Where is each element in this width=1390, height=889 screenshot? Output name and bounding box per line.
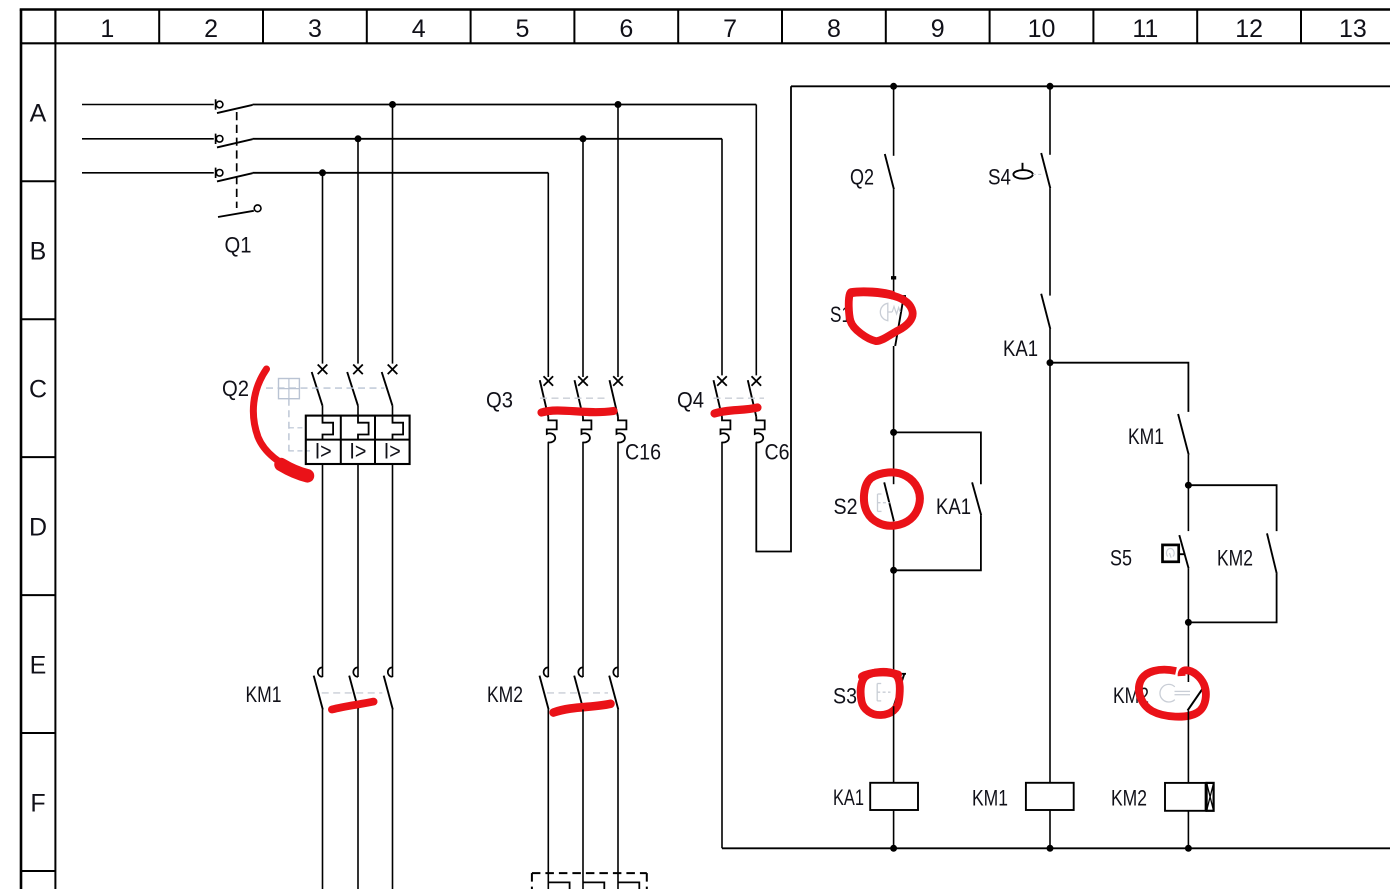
pushbutton S3 <box>877 674 906 706</box>
wire drop L1 to Q2 pole3 <box>392 105 394 364</box>
label KM2 NC <box>1113 683 1149 708</box>
node KA1 rail <box>890 845 897 852</box>
svg-text:KA1: KA1 <box>833 785 864 810</box>
label Q2 <box>222 376 249 401</box>
wire KM2 pole1 down <box>547 710 549 889</box>
wire drop L2 to Q4 pole1 <box>721 139 723 376</box>
wire Q3 pole2 to KM2 <box>582 442 584 677</box>
red annotation on Q3 <box>542 410 614 412</box>
svg-text:C6: C6 <box>765 440 790 465</box>
node KM2 NC top <box>1185 619 1192 626</box>
svg-text:A: A <box>30 100 47 128</box>
wire Q3 pole3 to KM2 <box>617 442 619 677</box>
breaker aux contact Q2 <box>885 154 894 189</box>
red annotation around S2 <box>864 472 920 525</box>
wire node to S5 <box>1187 485 1189 531</box>
svg-text:S5: S5 <box>1110 546 1132 571</box>
svg-text:KM1: KM1 <box>1128 424 1164 449</box>
svg-text:8: 8 <box>827 15 841 43</box>
svg-text:10: 10 <box>1028 15 1056 43</box>
label S1 <box>830 302 851 327</box>
svg-text:Q2: Q2 <box>850 165 874 190</box>
svg-text:I>: I> <box>384 439 401 464</box>
circuit breaker Q3 pole1 <box>540 376 557 442</box>
wire KA1 coil to rail <box>893 810 895 848</box>
svg-text:Q3: Q3 <box>486 388 513 413</box>
wire S5 to node <box>1187 568 1189 622</box>
selector switch S4 <box>1013 153 1050 188</box>
svg-text:KM2: KM2 <box>1111 786 1147 811</box>
wire L3 left segment <box>82 172 214 174</box>
svg-text:B: B <box>30 238 47 266</box>
wire KM2 coil to rail <box>1187 811 1189 849</box>
thermal overload relay F1 dashed box <box>532 873 647 889</box>
svg-text:Q2: Q2 <box>222 376 249 401</box>
svg-text:5: 5 <box>516 15 530 43</box>
pushbutton S2 <box>878 482 894 521</box>
wire node to KM1 coil <box>1049 363 1051 783</box>
Q1 auxiliary contact <box>218 205 261 217</box>
wire Q2 aux to S1 <box>891 189 896 296</box>
node KA1 branch <box>1047 359 1054 366</box>
svg-text:4: 4 <box>412 15 426 43</box>
node L1-Q2 <box>389 101 396 108</box>
red annotation around S3 <box>861 672 900 715</box>
KM1 mechanical link dashed <box>322 692 383 694</box>
wire drop L2 to Q3 pole2 <box>582 139 584 377</box>
wire S2 wire segments <box>893 432 895 570</box>
pushbutton S5 <box>1163 535 1189 568</box>
wire L2 left segment <box>82 138 214 140</box>
wire top rail to Q2 aux <box>893 86 895 156</box>
contactor KM2 pole3 <box>609 667 618 709</box>
Q2 operator square <box>279 379 300 399</box>
contactor KM1 pole1 <box>314 667 323 709</box>
node S2 bottom <box>890 567 897 574</box>
red annotation around KM2 NC <box>1139 670 1206 717</box>
svg-text:C: C <box>29 375 47 403</box>
label I> pole3 <box>384 439 401 464</box>
Q2 operator link dashed <box>289 399 310 452</box>
label Q3 <box>486 388 513 413</box>
wire drop L3 to Q3 pole1 <box>547 173 549 377</box>
wire top rail to S4 <box>1049 86 1051 155</box>
contactor KM2 pole2 <box>574 667 583 709</box>
wire KM2 pole3 down <box>617 710 619 889</box>
wire KM1 coil to rail <box>1049 810 1051 848</box>
wire L2 right segment <box>253 138 723 140</box>
wire KA1 contact to node <box>1049 329 1051 363</box>
label S2 <box>834 494 858 519</box>
Q3 mechanical link dashed <box>540 397 609 399</box>
svg-text:13: 13 <box>1339 15 1367 43</box>
node top rail col10 <box>1047 83 1054 90</box>
wire L1 right segment <box>253 104 757 106</box>
svg-text:I>: I> <box>349 439 366 464</box>
circuit breaker Q4 pole1 <box>714 376 731 442</box>
label I> pole2 <box>349 439 366 464</box>
contactor KM1 pole2 <box>349 667 358 709</box>
svg-text:9: 9 <box>931 15 945 43</box>
Q1 mechanical link dashed <box>236 112 238 208</box>
wire KM1 pole1 down <box>322 710 324 889</box>
label C6 <box>765 440 790 465</box>
control bottom rail <box>722 847 1390 849</box>
node L2-Q3 <box>580 135 587 142</box>
svg-text:2: 2 <box>204 15 218 43</box>
wire L1 left segment <box>82 104 214 106</box>
label KA1 contact <box>1003 336 1038 361</box>
contactor KM2 pole1 <box>540 667 549 709</box>
label C16 <box>625 440 661 465</box>
label S4 <box>988 165 1011 190</box>
label Q1 <box>225 233 252 258</box>
auxiliary contact KM1 <box>1178 414 1189 455</box>
wire drop L3 to Q2 pole1 <box>322 173 324 364</box>
svg-text:I>: I> <box>315 439 332 464</box>
svg-text:D: D <box>29 513 47 541</box>
label KM1 coil <box>972 786 1008 811</box>
svg-text:KM2: KM2 <box>487 682 523 707</box>
label KM2 branch <box>1217 546 1253 571</box>
wire KM2 NC to coil <box>1187 710 1189 783</box>
wire Q4 pole1 down <box>721 442 723 848</box>
red annotation on KM1 <box>332 702 374 710</box>
wire S4 to KA1 contact <box>1049 188 1051 295</box>
label KM1 power <box>246 682 282 707</box>
row letters A-F <box>29 100 47 818</box>
circuit breaker Q2 contacts <box>312 365 398 416</box>
red annotation on Q4 <box>715 408 758 414</box>
wire S1 to node <box>893 346 895 432</box>
svg-text:12: 12 <box>1235 15 1263 43</box>
control feed from Q4 <box>756 86 791 551</box>
svg-text:6: 6 <box>619 15 633 43</box>
column numbers 1-13 <box>100 15 1366 43</box>
red annotation around S1 <box>849 292 913 341</box>
wire KM2 pole2 down <box>582 710 584 889</box>
wire S3 to KA1 coil <box>893 706 895 783</box>
label KM2 coil <box>1111 786 1147 811</box>
wire KM1 pole2 down <box>357 710 359 889</box>
svg-text:E: E <box>30 651 47 679</box>
svg-text:S3: S3 <box>833 684 857 709</box>
wire KA1 node to KM1 contact <box>1050 363 1188 412</box>
Q2 trip unit box <box>306 416 410 464</box>
node L2-Q2 <box>355 135 362 142</box>
svg-text:KM2: KM2 <box>1217 546 1253 571</box>
relay coil KA1 <box>870 783 918 810</box>
KM2 mechanical link dashed <box>547 692 608 694</box>
node S5 top <box>1185 482 1192 489</box>
auxiliary contact KA1 parallel branch <box>894 432 982 570</box>
svg-text:3: 3 <box>308 15 322 43</box>
node KM2 rail <box>1185 845 1192 852</box>
circuit breaker Q3 pole2 <box>575 376 592 442</box>
wire drop L2 to Q2 pole2 <box>357 139 359 364</box>
contactor coil KM2 <box>1165 783 1214 811</box>
Q4 mechanical link dashed <box>714 397 765 399</box>
emergency stop S1 <box>880 296 906 346</box>
node KM1 rail <box>1047 845 1054 852</box>
node top rail col9 <box>890 83 897 90</box>
auxiliary contact KM2 parallel branch <box>1188 485 1276 622</box>
red annotation on Q2 <box>253 369 307 476</box>
label S5 <box>1110 546 1132 571</box>
svg-text:7: 7 <box>723 15 737 43</box>
svg-text:Q4: Q4 <box>677 388 704 413</box>
circuit breaker Q3 pole3 <box>610 376 627 442</box>
wire Q3 pole1 to KM2 <box>547 442 549 677</box>
label S3 <box>833 684 857 709</box>
svg-text:F: F <box>30 789 45 817</box>
node L1-Q3 <box>615 101 622 108</box>
svg-text:S4: S4 <box>988 165 1011 190</box>
wire Q2 pole3 to KM1 <box>392 464 394 677</box>
label KA1 coil <box>833 785 864 810</box>
label Q4 <box>677 388 704 413</box>
label Q2 control <box>850 165 874 190</box>
wire KM1 pole3 down <box>392 710 394 889</box>
label I> pole1 <box>315 439 332 464</box>
auxiliary contact KA1 <box>1041 294 1050 329</box>
interlock contact KM2 NC <box>1160 682 1207 710</box>
svg-text:Q1: Q1 <box>225 233 252 258</box>
wire drop L1 to Q3 pole3 <box>617 105 619 378</box>
wire Q2 pole2 to KM1 <box>357 464 359 677</box>
control top rail <box>791 85 1390 87</box>
svg-text:KM1: KM1 <box>972 786 1008 811</box>
contactor coil KM1 <box>1026 783 1074 810</box>
label KM1 contact <box>1128 424 1164 449</box>
svg-text:C16: C16 <box>625 440 661 465</box>
svg-text:11: 11 <box>1132 15 1158 43</box>
svg-text:KM1: KM1 <box>246 682 282 707</box>
label KA1 branch <box>936 494 971 519</box>
Q2 mechanical link dashed <box>266 387 384 389</box>
node L3-Q2 <box>319 169 326 176</box>
disconnect switch Q1 <box>216 99 253 181</box>
label KM2 power <box>487 682 523 707</box>
circuit breaker Q4 pole2 <box>748 376 765 442</box>
wire drop L1 to Q4 pole2 <box>755 105 757 376</box>
contactor KM1 pole3 <box>384 667 393 709</box>
wire KM1 contact to node <box>1187 455 1189 486</box>
svg-text:S2: S2 <box>834 494 858 519</box>
node S2 top <box>890 429 897 436</box>
wire node to KM2 NC <box>1187 622 1189 682</box>
wire S2 node to S3 <box>893 570 895 674</box>
wire Q2 pole1 to KM1 <box>322 464 324 677</box>
red annotation on KM2 <box>554 704 611 713</box>
svg-text:1: 1 <box>100 15 114 43</box>
wire L3 right segment <box>253 172 549 174</box>
svg-text:KA1: KA1 <box>1003 336 1038 361</box>
svg-text:KA1: KA1 <box>936 494 971 519</box>
